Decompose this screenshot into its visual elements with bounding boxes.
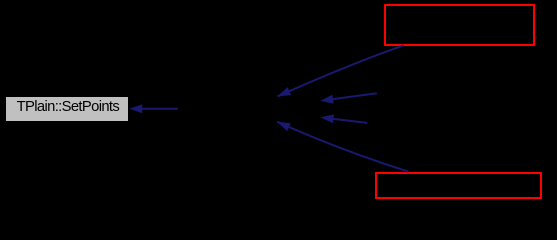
red node bottom (truncated caller box) [375,172,542,199]
edge e: bottom red node to middle node, wire (curved) [277,122,408,172]
arrowhead c [320,95,334,104]
arrowhead d [321,114,335,123]
edge b: top red node to middle node, wire (curved) [278,45,404,96]
red node top (truncated caller box) [384,4,535,46]
edge a: middle node to TPlain::SetPoints, wire [142,108,178,110]
arrowhead b [278,87,292,96]
edge d: right node 2 to middle node, wire [333,119,367,123]
arrowhead e [277,122,291,131]
node TPlain::SetPoints (current node, gray) [6,97,128,121]
arrowhead a into gray node [129,104,142,113]
edge c: right node 1 to middle node, wire [333,93,377,99]
